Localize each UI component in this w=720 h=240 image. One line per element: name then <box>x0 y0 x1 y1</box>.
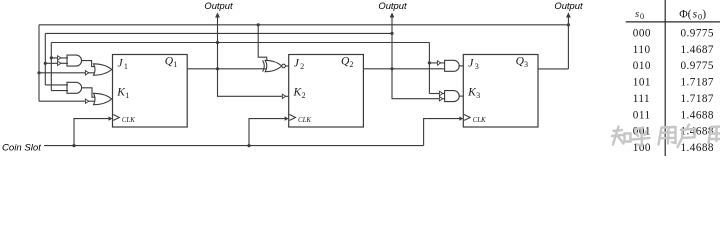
arrowhead clk U3 <box>459 116 463 120</box>
flip-flop U2 box <box>289 55 364 128</box>
watermark char partial <box>709 127 720 144</box>
svg-text:000: 000 <box>633 27 651 39</box>
node Q2 output junction <box>390 67 393 70</box>
arrowhead output3 <box>566 12 571 17</box>
node clk U2 junction <box>247 144 250 147</box>
OR gate O1 (J1) <box>94 64 112 75</box>
wedge J3 AND in1 <box>437 61 440 65</box>
svg-text:3: 3 <box>476 91 480 100</box>
svg-text:0: 0 <box>640 12 644 21</box>
wire left vertical Q1 drop <box>50 43 52 91</box>
watermark char yong <box>659 127 676 145</box>
watermark char zhi <box>612 127 631 145</box>
wire net Q2 feedback rail <box>45 32 392 34</box>
watermark char hu2 <box>678 125 696 148</box>
svg-text:1.4688: 1.4688 <box>681 109 714 121</box>
wire clk riser U1 <box>74 119 109 146</box>
node Q1 output junction <box>216 67 219 70</box>
svg-text:Φ(: Φ( <box>679 7 691 20</box>
svg-text:Output: Output <box>554 0 583 11</box>
wedge K3 AND in2 <box>439 97 442 101</box>
wedge J1 AND in1 <box>58 56 61 60</box>
svg-text:1: 1 <box>125 91 129 100</box>
table header rule <box>626 21 720 23</box>
wire Q3 output <box>538 68 568 70</box>
svg-text:0.9775: 0.9775 <box>681 27 714 39</box>
XNOR gate X1 body <box>265 60 282 71</box>
wire net Q1 feedback rail <box>51 42 429 44</box>
wedge J1 OR bottom <box>85 71 88 75</box>
node J1 AND in2 junction <box>44 62 47 65</box>
wire output2 vertical <box>392 17 440 99</box>
XNOR gate X1 (J2) <box>263 60 265 71</box>
wire K1 OR bottom input <box>39 100 97 102</box>
table column rule <box>664 0 666 156</box>
svg-text:Output: Output <box>378 0 407 11</box>
node XNOR feed junction <box>257 23 260 26</box>
wire K1 AND input 2 <box>51 90 68 92</box>
wire O2 output to K1 <box>111 98 114 100</box>
arrowhead clk U2 <box>285 116 289 120</box>
wire coin slot clock line <box>44 145 424 147</box>
svg-text:): ) <box>702 7 706 20</box>
wire K1 AND input 1 <box>45 84 68 86</box>
arrowhead output1 <box>215 12 220 17</box>
AND gate A4 (K3) <box>445 91 460 102</box>
clock triangle U2 <box>290 115 296 121</box>
wire clk riser U2 <box>249 119 285 146</box>
node clk U1 junction <box>72 144 75 147</box>
AND gate A2 (K1) <box>67 82 82 93</box>
wire left vertical Q2 drop <box>44 33 46 85</box>
AND gate A3 (J3) <box>445 60 460 71</box>
wire A3 output to J3 <box>459 65 463 67</box>
wire Q1 output <box>187 68 270 70</box>
clock triangle U1 <box>113 115 119 121</box>
svg-text:110: 110 <box>633 44 651 56</box>
svg-text:1.7187: 1.7187 <box>681 77 714 89</box>
svg-text:2: 2 <box>300 62 304 71</box>
svg-text:Coin Slot: Coin Slot <box>2 142 41 153</box>
wire clk riser U3 <box>424 119 460 146</box>
wire J1 AND input 1 <box>51 57 68 59</box>
node Q1 rail junction <box>216 41 219 44</box>
svg-text:0.9775: 0.9775 <box>681 60 714 72</box>
wire J3 AND input 1 <box>429 62 444 64</box>
wire A1 output to OR1 <box>82 61 97 67</box>
svg-text:1.4687: 1.4687 <box>681 44 714 56</box>
wire XNOR top feed <box>258 25 271 63</box>
wire J1 AND input 2 <box>45 62 68 64</box>
svg-text:s: s <box>635 8 639 20</box>
wire A4 output to K3 <box>459 95 463 97</box>
svg-text:J: J <box>294 58 300 70</box>
svg-text:3: 3 <box>524 60 528 69</box>
wedge K1 OR bottom <box>85 99 88 103</box>
svg-text:CLK: CLK <box>122 117 135 124</box>
node J3 AND in1 junction <box>428 61 431 64</box>
node Q2 rail junction <box>390 32 393 35</box>
node J1 OR bottom junction <box>37 71 40 74</box>
wire K3 AND bottom stub <box>443 98 445 100</box>
wire Q1 rail drop at right <box>428 43 430 94</box>
svg-text:CLK: CLK <box>473 117 486 124</box>
svg-text:s: s <box>693 7 698 20</box>
svg-text:1: 1 <box>124 62 128 71</box>
wire left vertical Q3 drop <box>38 25 40 101</box>
wire A2 output to OR2 <box>82 88 97 97</box>
wire output3 vertical <box>567 17 569 69</box>
wire J1 OR bottom input <box>39 72 97 74</box>
arrowhead clk U1 <box>109 116 113 120</box>
svg-text:Output: Output <box>204 0 233 11</box>
node J1 AND in1 junction <box>50 56 53 59</box>
svg-text:J: J <box>468 58 474 70</box>
XNOR output bubble <box>282 64 286 68</box>
watermark char hu <box>633 128 650 146</box>
wire net Q3 feedback top rail <box>39 24 568 26</box>
node Q3 rail junction <box>567 23 570 26</box>
wedge J1 AND in2 <box>58 61 61 65</box>
svg-text:1.7187: 1.7187 <box>681 93 714 105</box>
wedge K3 AND in1 <box>439 91 442 95</box>
clock triangle U3 <box>464 115 470 121</box>
svg-text:2: 2 <box>349 60 353 69</box>
wire Q2 output <box>363 68 444 70</box>
svg-text:101: 101 <box>633 77 651 89</box>
svg-text:010: 010 <box>633 60 651 72</box>
wire K2 input stub <box>285 95 288 97</box>
wedge K2 input <box>282 94 285 98</box>
svg-text:2: 2 <box>302 91 306 100</box>
svg-text:J: J <box>118 58 124 70</box>
svg-text:1: 1 <box>173 60 177 69</box>
flip-flop U1 box <box>113 55 188 128</box>
AND gate A1 (J1) <box>67 55 82 66</box>
svg-text:011: 011 <box>633 109 651 121</box>
arrowhead output2 <box>390 12 395 17</box>
wire output1 vertical <box>218 17 283 97</box>
flip-flop U3 box <box>463 55 538 128</box>
wire O1 output to J1 <box>111 69 114 71</box>
OR gate O2 (K1) <box>94 93 112 104</box>
svg-text:CLK: CLK <box>298 117 311 124</box>
svg-text:111: 111 <box>633 93 650 105</box>
wire K3 AND input 1 <box>429 93 444 95</box>
svg-text:3: 3 <box>475 62 479 71</box>
wire X1 output to J2 <box>285 65 288 67</box>
